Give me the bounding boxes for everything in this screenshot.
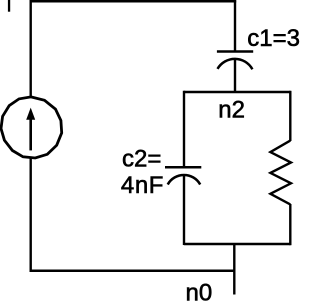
capacitor C2 curved plate — [168, 175, 201, 185]
current source I1 — [1, 97, 62, 158]
wire right vertical upper — [234, 0, 236, 51]
wire C2 to bottom rail — [183, 175, 185, 245]
wire n2 top rail — [184, 91, 291, 93]
wire left branch vertical — [183, 91, 185, 167]
capacitor C1 curved plate — [218, 59, 253, 69]
label I1 (clipped at top) — [8, 0, 10, 12]
svg-text:c2=: c2= — [122, 145, 161, 172]
wire C1 to node n2 rail — [234, 59, 236, 94]
wire bottom rail — [30, 270, 236, 273]
svg-text:4nF: 4nF — [121, 172, 164, 199]
svg-text:c1=3: c1=3 — [247, 25, 300, 52]
wire right branch vertical lower — [289, 204, 291, 245]
capacitor C1 flat plate — [217, 50, 253, 53]
wire top rail — [30, 0, 237, 3]
wire node n0 stub — [233, 244, 235, 295]
resistor R1 — [270, 141, 291, 205]
wire left vertical lower — [30, 157, 32, 272]
svg-text:n0: n0 — [186, 279, 213, 302]
current source arrow — [26, 108, 35, 151]
svg-text:n2: n2 — [218, 96, 245, 123]
wire branch bottom rail — [184, 243, 291, 245]
capacitor C2 flat plate — [165, 166, 201, 169]
wire left vertical upper — [30, 0, 32, 97]
wire right branch vertical upper — [289, 91, 291, 141]
